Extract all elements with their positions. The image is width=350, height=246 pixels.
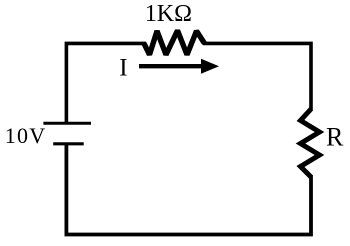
svg-text:I: I [119, 55, 127, 82]
resistor R (vertical zigzag) [301, 109, 320, 177]
current arrow [139, 59, 219, 74]
svg-text:R: R [326, 122, 344, 151]
battery V1 top plate (long) [43, 122, 91, 125]
wire: right lower + bottom + left lower [66, 144, 311, 235]
battery V1 bottom plate (short) [53, 142, 83, 145]
wire: top-right lead + right upper [203, 43, 311, 111]
resistor R1 1KΩ (zigzag) [144, 31, 205, 55]
svg-text:1KΩ: 1KΩ [145, 1, 192, 27]
wire: left upper + top-left lead [66, 43, 146, 123]
svg-text:10V: 10V [5, 123, 47, 148]
